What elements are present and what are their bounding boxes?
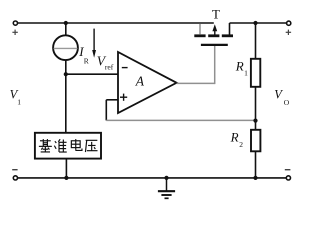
wire: op-amp output (gray) bbox=[177, 82, 215, 84]
node: junction dot top right / R1 bbox=[253, 21, 257, 25]
svg-text:O: O bbox=[284, 98, 290, 107]
resistor R2 bbox=[251, 130, 260, 152]
wire: R1 bottom to R2 top bbox=[255, 87, 257, 130]
node: junction dot on left column at inverting branch bbox=[64, 72, 68, 76]
node: bottom-right - terminal (open circle) bbox=[286, 176, 290, 180]
MOSFET body arrow (up) bbox=[212, 24, 217, 35]
wire: drain to output terminal bbox=[230, 22, 287, 24]
label: 基准电压 (hand-drawn strokes) bbox=[39, 139, 98, 152]
current source IR (circle symbol) bbox=[53, 35, 78, 60]
wire: current source bottom down to reference box bbox=[65, 60, 67, 134]
wire: non-inverting input stub bbox=[106, 99, 118, 101]
wire: feedback horizontal (gray) to R1-R2 node bbox=[106, 119, 255, 121]
svg-text:T: T bbox=[212, 7, 220, 22]
char 电 bbox=[71, 139, 82, 150]
wire: MOSFET drain vertical bbox=[229, 23, 231, 35]
node: output + terminal (open circle) bbox=[287, 21, 291, 25]
wire: junction to current source top bbox=[65, 23, 67, 36]
node: junction dot top rail / current source bbox=[64, 21, 68, 25]
wire: R2 bottom to rail bbox=[255, 151, 257, 178]
label: non-inverting + sign bbox=[120, 94, 127, 101]
svg-text:1: 1 bbox=[244, 69, 248, 78]
label: + polarity output bbox=[286, 30, 291, 35]
label: inverting - sign bbox=[122, 67, 128, 69]
current source inner bar (gray) bbox=[54, 47, 78, 49]
reference voltage box 基准电压 bbox=[35, 133, 101, 159]
node: junction dot box/rail bbox=[64, 176, 68, 180]
node: junction dot R2/rail bbox=[253, 176, 257, 180]
wire: feedback left vertical bbox=[105, 100, 107, 121]
char 压 bbox=[85, 140, 97, 152]
svg-text:1: 1 bbox=[17, 98, 21, 107]
svg-text:A: A bbox=[135, 73, 145, 88]
MOSFET source stub (gray) bbox=[199, 24, 201, 35]
wire: bottom rail bbox=[18, 177, 287, 179]
wire: to op-amp inverting input bbox=[66, 73, 118, 75]
svg-text:R: R bbox=[235, 58, 244, 73]
svg-text:2: 2 bbox=[239, 140, 243, 149]
label: - polarity bottom right bbox=[285, 169, 291, 171]
label: - polarity bottom left bbox=[12, 169, 17, 171]
transistor T (MOSFET) gate plate bbox=[201, 44, 228, 46]
node: junction dot feedback tap bbox=[253, 119, 257, 123]
wire: gate lead up (gray) bbox=[214, 46, 216, 84]
annotation: current direction arrow (down) bbox=[92, 29, 96, 58]
op-amp U1 (triangle) bbox=[118, 52, 177, 113]
node: bottom-left - terminal (open circle) bbox=[13, 176, 17, 180]
char 基 bbox=[39, 139, 52, 152]
svg-text:R: R bbox=[230, 130, 239, 145]
wire: box bottom to ground rail bbox=[65, 159, 67, 178]
node: input + terminal (open circle) bbox=[13, 21, 17, 25]
svg-text:V: V bbox=[274, 88, 283, 102]
resistor R1 bbox=[251, 59, 260, 87]
wire: top rail from + input terminal to MOSFET source bbox=[18, 22, 214, 24]
wire: top junction down to R1 bbox=[255, 23, 257, 59]
MOSFET channel segment source bbox=[194, 34, 205, 37]
ground bbox=[158, 178, 175, 198]
char 准 bbox=[54, 139, 66, 152]
svg-text:R: R bbox=[84, 56, 89, 65]
label: + polarity at input top bbox=[12, 30, 17, 35]
node: junction dot ground/rail bbox=[164, 176, 168, 180]
MOSFET channel segment body bbox=[208, 34, 219, 37]
svg-text:ref: ref bbox=[105, 63, 114, 72]
MOSFET channel segment drain bbox=[222, 34, 233, 37]
